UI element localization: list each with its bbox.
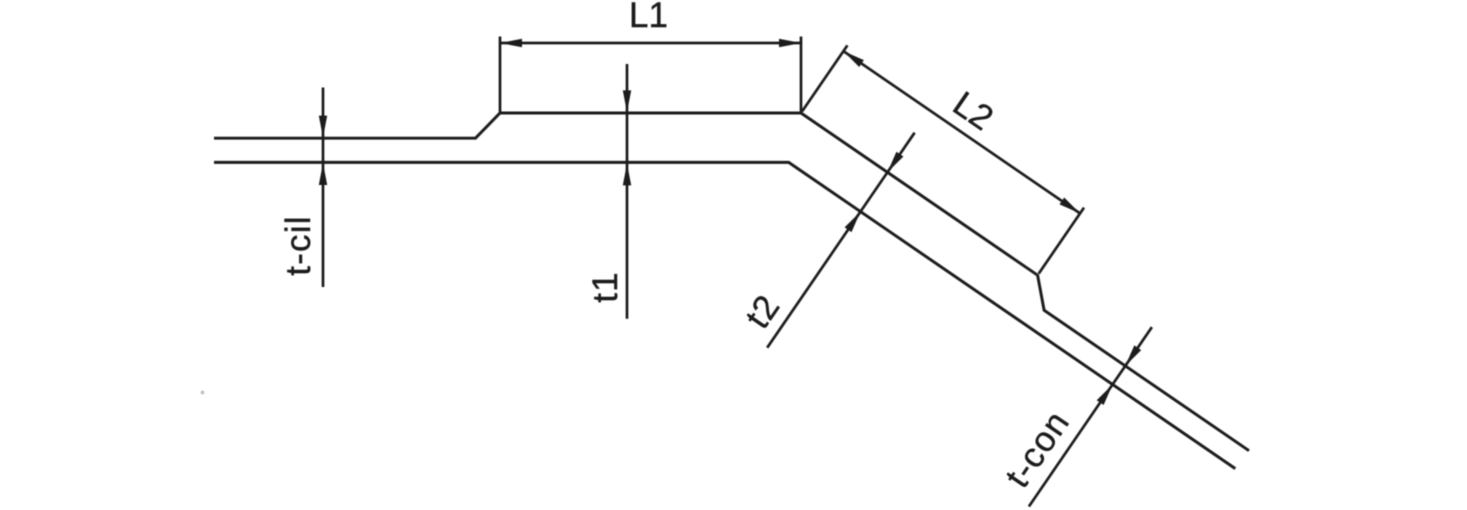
svg-text:L1: L1: [629, 0, 668, 35]
svg-text:t1: t1: [586, 271, 625, 303]
svg-text:t-cil: t-cil: [279, 215, 318, 275]
